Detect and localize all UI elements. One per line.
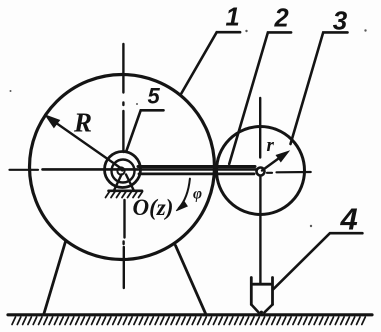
radius arrow r (pulley) [262, 151, 289, 170]
hub 5 (axle at wheel center) [105, 152, 141, 188]
svg-text:r: r [267, 135, 275, 156]
pulley 3 (small circle) [217, 127, 305, 215]
weight 4 (hanging load cup) [251, 278, 272, 314]
label 3 [333, 5, 348, 35]
pin joint at pulley center [257, 168, 265, 176]
svg-text:5: 5 [148, 84, 161, 109]
leader line for label 2 [229, 32, 291, 164]
wheel 1 (big disk) [30, 75, 215, 260]
vertical centerline of wheel [123, 44, 124, 288]
vertical line / cord through pulley down to weight [259, 98, 262, 284]
leader line for label 4 [273, 233, 362, 289]
svg-text:R: R [73, 108, 92, 138]
label R [73, 108, 92, 138]
label 2 [274, 4, 289, 32]
rod 2 (link from hub to pulley pin) [138, 167, 255, 174]
leader line for label 1 [181, 32, 240, 93]
label O(z) [133, 195, 174, 220]
ground line [8, 313, 372, 316]
horizontal centerline right of pulley [267, 171, 311, 174]
stand left leg [44, 242, 66, 314]
fixed pivot support under hub [106, 175, 143, 198]
label 4 [340, 201, 358, 236]
horizontal centerline of wheel [10, 168, 257, 171]
scan speckles [10, 29, 367, 227]
leader line for label 5 [126, 110, 163, 151]
svg-text:1: 1 [226, 3, 240, 31]
ground hatching [12, 317, 365, 325]
label 5 [148, 84, 161, 109]
svg-text:φ: φ [193, 186, 202, 203]
label phi [193, 186, 202, 203]
svg-text:4: 4 [340, 201, 358, 236]
label 1 [226, 3, 240, 31]
label r [267, 135, 275, 156]
svg-text:2: 2 [274, 4, 289, 32]
leader line for label 3 [291, 32, 348, 144]
angle phi arc with arrow [176, 179, 190, 211]
svg-text:3: 3 [333, 5, 348, 35]
svg-text:O(z): O(z) [133, 195, 174, 220]
radius arrow R [45, 115, 122, 169]
stand right leg [176, 246, 206, 314]
